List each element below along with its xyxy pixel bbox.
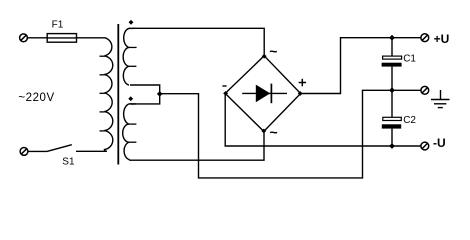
bridge corner dot right — [298, 91, 303, 96]
capacitor C1 lead top — [391, 38, 393, 56]
switch S1 blade — [47, 145, 72, 152]
svg-text:~220V: ~220V — [18, 92, 54, 104]
transformer T1 primary winding — [104, 38, 112, 151]
wire secondary bottom winding top lead — [130, 94, 160, 104]
junction +U rail — [389, 35, 395, 41]
bridge rectifier diamond — [225, 56, 300, 132]
bridge corner dot top — [262, 54, 267, 59]
transformer T1 secondary winding bottom — [123, 104, 136, 160]
wire terminal to switch — [28, 150, 47, 152]
capacitor C1 lead bottom — [391, 67, 393, 91]
svg-text:F1: F1 — [52, 19, 64, 30]
terminal input top — [20, 34, 28, 42]
ground symbol — [431, 90, 450, 108]
phase dot bottom secondary — [128, 96, 133, 101]
terminal common — [421, 86, 429, 94]
secondary bottom winding loop ticks — [129, 124, 137, 142]
capacitor C2 lead top — [391, 90, 393, 117]
wire bridge minus to -U rail — [225, 93, 421, 146]
svg-text:C1: C1 — [403, 54, 416, 65]
capacitor C2 lead bottom — [391, 129, 393, 146]
junction center tap — [157, 91, 163, 97]
wire mid rail to terminal — [392, 89, 421, 91]
svg-text:~: ~ — [269, 43, 277, 59]
wire secondary top winding bottom lead — [130, 85, 160, 94]
fuse F1 — [47, 34, 76, 43]
diode D1 triangle — [256, 85, 270, 103]
terminal input bottom — [20, 148, 28, 156]
label - bridge — [222, 85, 226, 87]
terminal +U — [421, 34, 429, 42]
wire center tap to ground rail — [160, 90, 392, 178]
svg-text:~: ~ — [270, 124, 278, 140]
primary winding loop ticks — [100, 56, 105, 131]
wire bridge plus to +U rail — [301, 38, 421, 94]
wire fuse to transformer primary — [77, 37, 106, 39]
svg-text:-U: -U — [433, 136, 446, 150]
svg-text:S1: S1 — [62, 157, 75, 168]
phase dot top secondary — [129, 20, 134, 25]
transformer core — [117, 24, 119, 165]
transformer T1 secondary winding top — [123, 28, 135, 85]
wire secondary bottom to bridge — [130, 131, 264, 160]
capacitor C1 plate positive — [383, 56, 402, 59]
wire switch to transformer primary — [76, 150, 107, 152]
wire secondary top lead to bridge — [132, 28, 264, 56]
svg-text:+U: +U — [434, 32, 450, 46]
capacitor C2 plate negative — [382, 124, 401, 128]
secondary top winding loop ticks — [129, 47, 137, 66]
wire terminal to fuse — [27, 37, 47, 39]
diode D1 cathode bar — [270, 84, 272, 104]
label + bridge — [299, 79, 307, 87]
junction mid rail — [389, 87, 395, 93]
bridge corner dot left — [223, 91, 228, 96]
junction -U rail — [389, 143, 395, 149]
svg-text:C2: C2 — [403, 115, 416, 126]
diode D1 lead line — [242, 92, 287, 94]
terminal -U — [421, 142, 429, 150]
bridge corner dot bottom — [261, 129, 266, 134]
capacitor C1 plate negative — [382, 63, 402, 67]
capacitor C2 plate positive — [383, 117, 402, 120]
